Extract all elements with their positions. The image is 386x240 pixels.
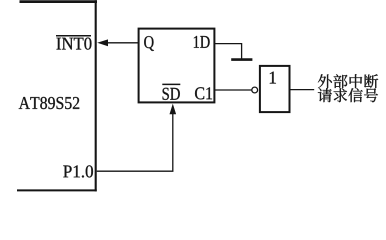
wire: AT89S52 right border [95, 0, 97, 191]
pin label: SD set input (active low) [163, 88, 169, 100]
pin label: INT0 (active low) [57, 38, 61, 50]
label: 外部中断 (external interrupt request) line 1 [318, 74, 378, 88]
wire: C1 to inverter input [214, 89, 251, 91]
wire: AT89S52 bottom border [17, 189, 97, 191]
wire: Q output to INT0 [106, 42, 139, 44]
inverter input bubble [252, 87, 258, 93]
label: 请求信号 (request signal) line 2 [318, 88, 378, 102]
ground [231, 58, 252, 61]
pin label: P1.0 [63, 166, 71, 178]
microcontroller U1 AT89S52 (partial box, open left side) [17, 0, 97, 191]
pin label: 1D data input [194, 36, 199, 48]
label: 1 (IEC buffer function) [270, 72, 276, 84]
flip-flop latch U2 (D latch box) [139, 29, 215, 103]
arrowhead into SD pin [170, 104, 177, 115]
wire: gate output to label [290, 89, 315, 91]
label: AT89S52 [19, 97, 30, 109]
wire: 1D to ground, horizontal then down [214, 44, 241, 59]
overline of SD [162, 83, 180, 85]
pin label: Q output [144, 36, 154, 51]
wire: AT89S52 top border [20, 0, 98, 3]
arrowhead into INT0 pin [97, 39, 108, 46]
wire: P1.0 to SD, horizontal then riser up [97, 113, 173, 172]
buffer gate U3 (IEC "1" box) [260, 66, 290, 112]
pin label: C1 clock input [195, 87, 204, 99]
overline of INT0 [56, 35, 91, 37]
